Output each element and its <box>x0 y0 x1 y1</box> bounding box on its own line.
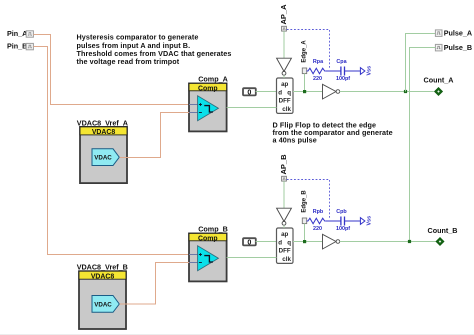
wire Comp_B out to DFF_B clk <box>227 257 277 259</box>
node B junction <box>303 240 306 243</box>
wire Edge_A terminal to node A <box>304 74 306 92</box>
wire Pin_B to Comp_B + input <box>33 47 189 255</box>
svg-text:AP_B: AP_B <box>279 154 288 175</box>
svg-text:Edge_B: Edge_B <box>301 190 307 213</box>
svg-text:Comp_B: Comp_B <box>198 224 228 233</box>
svg-text:DFF: DFF <box>279 248 291 255</box>
pin Pin_A <box>7 29 33 38</box>
constant 0 (A) <box>243 88 256 97</box>
D flip-flop DFF_A <box>277 78 294 113</box>
wire VDAC8_Vref_B out to Comp_B - input <box>120 263 190 305</box>
svg-text:AP_A: AP_A <box>279 4 288 25</box>
svg-text:Vss: Vss <box>367 66 373 76</box>
svg-text:Pin_B: Pin_B <box>7 42 27 51</box>
wire Cpb to Vss <box>345 220 361 222</box>
annotation text block: hysteresis comparator note <box>77 33 232 67</box>
svg-text:Comp: Comp <box>198 236 218 243</box>
wire Edge_B terminal to node B <box>304 224 306 242</box>
dashed annotation wire AP_A to RC node A <box>287 30 330 69</box>
constant 0 (B) <box>243 238 256 247</box>
svg-text:DFF: DFF <box>279 98 291 105</box>
svg-text:Pulse_A: Pulse_A <box>444 29 472 38</box>
wire Comp_A out to DFF_A clk <box>227 107 277 109</box>
wire Pulse_B down to Count_B net <box>410 48 436 242</box>
wire Pin_A to Comp_A + input <box>33 35 189 105</box>
svg-text:VDAC8: VDAC8 <box>91 274 115 281</box>
wire junction up to Pulse_A <box>406 34 436 92</box>
resistor Rpa 220 <box>307 59 326 82</box>
pin AP_B <box>279 154 288 181</box>
svg-text:VDAC: VDAC <box>94 155 112 162</box>
pin Pulse_B <box>435 43 472 52</box>
terminal Count_B <box>428 226 458 246</box>
wire constant 0 to DFF_A d input <box>256 91 277 93</box>
svg-text:clk: clk <box>282 106 291 113</box>
wire buffer to DFF_A ap <box>283 75 285 78</box>
wire VDAC8_Vref_A out to Comp_A - input <box>120 113 190 158</box>
svg-text:Cpb: Cpb <box>336 209 347 215</box>
terminal Count_A <box>424 76 454 96</box>
svg-text:Comp: Comp <box>198 86 218 93</box>
inverter G2 (B) <box>323 234 340 249</box>
comparator Comp_A <box>189 74 228 131</box>
wire AP_B pin to buffer input <box>283 181 285 208</box>
svg-text:ap: ap <box>281 81 288 88</box>
node junction Count_B tap <box>408 240 411 243</box>
inverter buffer above DFF_B <box>277 208 292 225</box>
node A junction <box>303 90 306 93</box>
pin Pin_B <box>7 42 33 51</box>
capacitor Cpa 100pf <box>336 59 350 82</box>
svg-text:Pin_A: Pin_A <box>7 29 27 38</box>
VDAC8 U: VDAC8_Vref_B <box>77 263 128 329</box>
svg-text:Rpa: Rpa <box>313 59 324 65</box>
bottom edge line <box>0 334 474 335</box>
svg-text:VDAC8_Vref_B: VDAC8_Vref_B <box>77 263 128 272</box>
svg-text:the voltage read from trimpot: the voltage read from trimpot <box>77 57 180 66</box>
svg-text:100pf: 100pf <box>336 76 350 82</box>
wire AP_A pin to buffer input <box>283 31 285 58</box>
terminal Edge_A <box>301 40 307 74</box>
VDAC8 U: VDAC8_Vref_A <box>77 118 128 183</box>
svg-text:Comp_A: Comp_A <box>198 74 228 83</box>
svg-text:0: 0 <box>247 88 251 97</box>
comparator Comp_B <box>189 224 228 281</box>
svg-text:d: d <box>278 90 282 97</box>
svg-text:Cpa: Cpa <box>336 59 347 65</box>
annotation text block: D flip flop note <box>273 120 393 144</box>
svg-text:100pf: 100pf <box>336 226 350 232</box>
svg-text:0: 0 <box>247 238 251 247</box>
wire constant 0 to DFF_B d input <box>256 241 277 243</box>
D flip-flop DFF_B <box>277 228 294 263</box>
terminal Edge_B <box>301 190 307 224</box>
capacitor Cpb 100pf <box>336 209 350 232</box>
svg-text:q: q <box>287 240 291 247</box>
svg-text:Count_B: Count_B <box>428 226 458 235</box>
svg-text:VDAC8: VDAC8 <box>92 129 116 136</box>
svg-text:d: d <box>278 240 282 247</box>
svg-text:clk: clk <box>282 256 291 263</box>
svg-text:Edge_A: Edge_A <box>301 40 307 63</box>
wire Rpb to Cpb <box>325 220 341 222</box>
node junction Pulse_A tap <box>404 90 407 93</box>
wire inverter to Count_A terminal <box>340 91 434 93</box>
svg-text:Vss: Vss <box>367 216 373 226</box>
wire buffer to DFF_B ap <box>283 225 285 228</box>
svg-text:ap: ap <box>281 231 288 238</box>
wire DFF_B q to inverter <box>293 241 323 243</box>
svg-text:a 40ns pulse: a 40ns pulse <box>273 136 317 145</box>
resistor Rpb 220 <box>307 209 326 232</box>
svg-text:220: 220 <box>313 76 322 82</box>
wire Rpa to Cpa <box>325 70 341 72</box>
svg-text:Pulse_B: Pulse_B <box>444 43 472 52</box>
svg-text:VDAC: VDAC <box>94 302 112 309</box>
svg-text:VDAC8_Vref_A: VDAC8_Vref_A <box>77 118 128 127</box>
inverter G1 (A) <box>323 84 340 99</box>
svg-text:q: q <box>287 90 291 97</box>
pin Pulse_A <box>435 29 472 38</box>
power Vss (B) <box>360 216 372 226</box>
wire inverter to Count_B terminal <box>340 241 436 243</box>
svg-text:220: 220 <box>313 226 322 232</box>
power Vss (A) <box>360 66 372 76</box>
svg-text:Count_A: Count_A <box>424 76 454 85</box>
inverter buffer above DFF_A <box>277 58 292 75</box>
svg-text:Rpb: Rpb <box>313 209 324 215</box>
pin AP_A <box>279 4 288 31</box>
dashed annotation wire AP_B to RC node B <box>287 180 330 219</box>
wire Cpa to Vss <box>345 70 361 72</box>
wire DFF_A q to inverter <box>293 91 323 93</box>
